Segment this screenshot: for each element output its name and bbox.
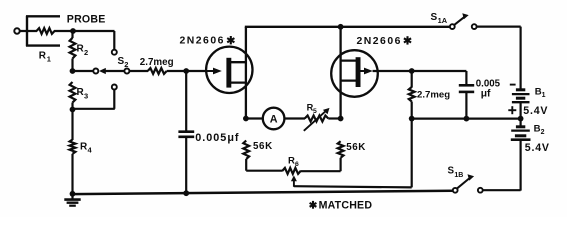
label uf C2 xyxy=(481,88,491,99)
R6 wiper arrow xyxy=(291,175,297,186)
wire xyxy=(73,89,115,108)
S2 contact mid xyxy=(93,69,98,74)
wire xyxy=(328,117,340,119)
Q1 source lead xyxy=(229,81,246,83)
node R1-R2 xyxy=(70,28,76,34)
Q1 drain lead xyxy=(229,61,246,63)
node mid rail C2 xyxy=(464,116,470,122)
node ground rail xyxy=(70,191,76,197)
wire xyxy=(113,31,115,50)
wire ground rail xyxy=(73,191,453,194)
label B1 xyxy=(535,87,546,100)
S1A contact right xyxy=(472,24,477,29)
Q2 source lead xyxy=(341,79,359,81)
wire xyxy=(284,117,305,119)
svg-text:2.7meg: 2.7meg xyxy=(417,89,450,100)
label 2N2606 Q2 xyxy=(357,36,412,47)
wire xyxy=(71,110,73,141)
wire xyxy=(167,70,207,72)
wire xyxy=(54,30,115,32)
svg-text:1A: 1A xyxy=(438,16,448,25)
label R4 xyxy=(80,142,93,155)
svg-text:3: 3 xyxy=(84,91,88,100)
svg-text:2: 2 xyxy=(124,60,128,69)
wire xyxy=(185,71,187,131)
capacitor C1 plates xyxy=(178,132,194,137)
R5 arrow xyxy=(304,108,330,131)
label R2 xyxy=(77,44,89,57)
resistor R4 xyxy=(70,140,76,154)
wire xyxy=(519,27,521,90)
S2 contact bottom xyxy=(112,85,117,90)
B1 minus sign xyxy=(510,84,516,86)
meter A label xyxy=(270,114,278,126)
svg-text:μf: μf xyxy=(481,88,491,99)
label S1A xyxy=(431,12,448,25)
Q1 gate arrow xyxy=(207,68,222,75)
S1B contact right xyxy=(478,188,483,193)
label 2.7meg xyxy=(140,57,174,68)
ground symbol xyxy=(64,194,80,206)
svg-text:1: 1 xyxy=(542,92,546,99)
wire xyxy=(411,71,413,88)
svg-text:1B: 1B xyxy=(454,172,463,179)
wire mid rail xyxy=(412,117,521,119)
resistor 2.7meg xyxy=(148,68,167,74)
S1A blade xyxy=(454,13,469,25)
transistor Q1 body xyxy=(206,47,252,93)
wire xyxy=(71,59,73,72)
svg-text:5: 5 xyxy=(313,108,317,115)
input terminal J1 xyxy=(14,28,19,33)
svg-text:2: 2 xyxy=(541,129,545,136)
svg-text:1: 1 xyxy=(47,55,51,64)
node rail B xyxy=(518,116,524,122)
node top rail Q2 xyxy=(338,24,344,30)
S2 pivot xyxy=(124,69,129,74)
label 5.4V B1 xyxy=(523,105,548,117)
wire xyxy=(129,70,148,72)
battery B2 xyxy=(511,127,531,140)
label R6 xyxy=(288,155,299,168)
node mid rail 2.7meg xyxy=(409,116,415,122)
svg-text:S: S xyxy=(431,12,438,23)
S1B blade xyxy=(457,174,474,188)
node C1-ground xyxy=(183,190,189,196)
svg-text:A: A xyxy=(270,114,278,126)
wire xyxy=(185,137,187,194)
meter A body xyxy=(263,108,285,130)
svg-text:2.7meg: 2.7meg xyxy=(140,57,174,68)
node Q2 source xyxy=(338,116,344,122)
wire riser xyxy=(411,119,413,188)
rheostat R5 xyxy=(305,116,329,122)
wire xyxy=(71,154,73,194)
wire xyxy=(477,26,521,28)
wire xyxy=(519,102,521,118)
wire xyxy=(71,103,73,110)
wire Q1 drain riser xyxy=(245,27,247,119)
svg-text:R: R xyxy=(288,155,295,166)
svg-text:MATCHED: MATCHED xyxy=(319,199,373,211)
wire top rail xyxy=(245,26,452,28)
resistor 2.7meg right xyxy=(409,87,415,102)
svg-text:56K: 56K xyxy=(346,142,366,153)
svg-text:2N2606: 2N2606 xyxy=(180,36,225,47)
S1A contact left xyxy=(450,24,455,29)
wire Q2 drain riser xyxy=(339,27,341,119)
wire xyxy=(519,140,521,191)
wire xyxy=(20,30,37,32)
wire xyxy=(465,71,467,85)
label 5.4V B2 xyxy=(525,142,550,154)
svg-text:0.005μf: 0.005μf xyxy=(195,132,239,144)
wire xyxy=(519,119,521,127)
node R3-R4 xyxy=(70,107,76,113)
label B2 xyxy=(534,123,545,136)
wire xyxy=(246,117,263,119)
resistor R1 xyxy=(37,28,55,34)
wire xyxy=(483,189,521,191)
rheostat R6 xyxy=(282,168,300,174)
node Q1 source xyxy=(243,116,249,122)
wire wiper line xyxy=(294,186,412,187)
Q1 channel bar xyxy=(226,58,231,88)
resistor 56K left xyxy=(243,141,249,159)
wire xyxy=(411,102,413,119)
svg-text:PROBE: PROBE xyxy=(67,13,106,25)
svg-text:56K: 56K xyxy=(253,141,273,152)
node R2-R3 xyxy=(70,68,76,74)
svg-text:2: 2 xyxy=(84,48,88,57)
wire xyxy=(71,31,73,38)
label 2.7meg right xyxy=(417,89,450,100)
S2 wiper arrow xyxy=(99,68,125,74)
probe shield bracket xyxy=(26,16,60,46)
S2 contact top xyxy=(112,50,117,55)
label S1B xyxy=(448,166,464,179)
node gate Q1 xyxy=(183,68,189,74)
label 2N2606 Q1 xyxy=(180,36,235,47)
wire xyxy=(246,159,282,171)
Q2 drain lead xyxy=(341,59,359,61)
Q2 channel bar xyxy=(356,57,361,87)
svg-text:5.4V: 5.4V xyxy=(523,105,548,117)
svg-text:2N2606: 2N2606 xyxy=(357,36,402,47)
resistor 56K right xyxy=(338,141,344,158)
wire xyxy=(300,158,340,171)
label R5 xyxy=(307,103,317,116)
capacitor C2 plates xyxy=(459,85,474,92)
svg-text:6: 6 xyxy=(295,161,299,168)
Q2 gate arrow xyxy=(361,68,373,75)
resistor R2 xyxy=(70,38,76,59)
wire xyxy=(73,70,94,72)
label 0.005uf xyxy=(195,132,239,144)
B1 plus sign xyxy=(508,106,516,114)
label 56K left xyxy=(253,141,273,152)
label R3 xyxy=(77,87,89,100)
wire xyxy=(465,92,467,119)
label PROBE xyxy=(67,13,106,25)
resistor R3 xyxy=(70,82,76,103)
node gate Q2 xyxy=(409,68,415,74)
battery B1 xyxy=(512,90,530,102)
transistor Q2 body xyxy=(331,50,378,97)
label 56K right xyxy=(346,142,366,153)
label S2 xyxy=(118,56,129,69)
svg-text:B: B xyxy=(534,123,541,134)
wire xyxy=(373,70,467,72)
label 0.005 C2 xyxy=(476,78,501,89)
svg-text:R: R xyxy=(39,51,47,62)
label MATCHED xyxy=(310,199,373,211)
label R1 xyxy=(39,51,51,64)
svg-text:5.4V: 5.4V xyxy=(525,142,550,154)
S1B contact left xyxy=(453,188,458,193)
